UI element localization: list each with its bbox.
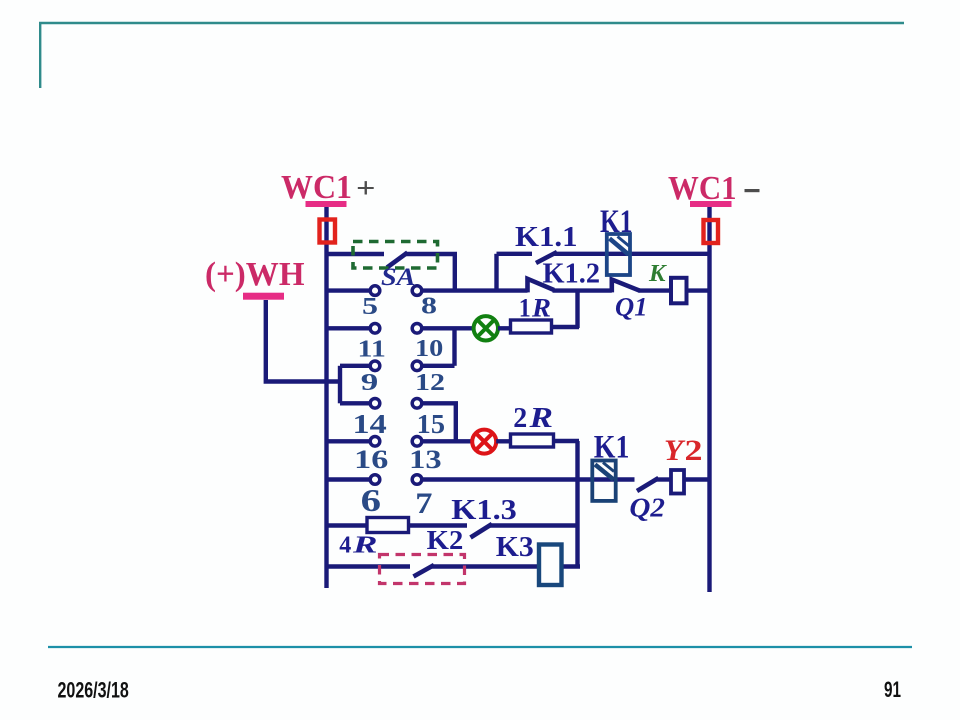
contact terminal 7 bbox=[412, 475, 422, 485]
svg-text:K: K bbox=[648, 261, 668, 287]
relay coil K bbox=[671, 278, 687, 304]
svg-text:+: + bbox=[356, 173, 376, 205]
resistor 1R bbox=[511, 320, 552, 333]
contact terminal 10 bbox=[412, 324, 422, 334]
contact terminal 11 bbox=[370, 324, 380, 334]
svg-text:9: 9 bbox=[361, 370, 379, 396]
contact terminal 14 bbox=[370, 399, 380, 409]
svg-text:K1.2: K1.2 bbox=[543, 259, 601, 290]
wire: row of contacts 5-8 bbox=[327, 288, 371, 292]
selector switch SA dashed enclosure bbox=[353, 242, 438, 269]
svg-text:11: 11 bbox=[358, 337, 386, 363]
wire: riser to K1.1 branch bbox=[494, 254, 498, 291]
resistor 2R bbox=[511, 434, 554, 447]
bottom border line bbox=[48, 646, 912, 648]
contact K1.3 blade bbox=[471, 524, 493, 538]
contact terminal 13 bbox=[412, 437, 422, 447]
wire: SA row right segment down to contact 8 row bbox=[405, 254, 455, 289]
svg-text:K2: K2 bbox=[427, 525, 464, 555]
wire: 1R riser to K1.2/Q1 node bbox=[575, 291, 579, 328]
wire: K1.1 to coil K1 and right bus bbox=[555, 252, 710, 256]
svg-text:5: 5 bbox=[362, 294, 378, 320]
contact terminal 15 bbox=[412, 399, 422, 409]
wire: contact 9 stub from WH bracket bbox=[340, 364, 370, 368]
lamp red (2R branch) bbox=[472, 430, 496, 454]
relay box K1 (bottom, with hatch) bbox=[592, 461, 615, 501]
contact terminal 6 bbox=[370, 475, 380, 485]
wire: WH bracket vertical 9 to 14 bbox=[338, 366, 342, 404]
wire: coil Y2 to right bus bbox=[684, 477, 710, 481]
svg-text:2026/3/18: 2026/3/18 bbox=[58, 677, 129, 702]
resistor 4R bbox=[367, 518, 409, 533]
wire: K2 to K3 box bbox=[432, 564, 540, 568]
svg-text:K1.3: K1.3 bbox=[451, 494, 517, 526]
wire: SA row left segment bbox=[327, 252, 385, 256]
wire: lamp to 2R and 2R to riser bbox=[496, 439, 579, 444]
svg-text:7: 7 bbox=[415, 487, 432, 520]
contact terminal 5 bbox=[370, 286, 380, 296]
wire: row of contacts 11-10 bbox=[327, 326, 371, 330]
contact Q2 blade bbox=[637, 478, 659, 491]
terminal bar WC1- bbox=[690, 201, 732, 207]
wire: K3 box to riser bbox=[561, 564, 580, 568]
contact K2 blade bbox=[414, 565, 435, 577]
wire: Q1 to coil K bbox=[639, 288, 672, 292]
contact terminal 12 bbox=[412, 361, 422, 371]
wire: 1R to riser bbox=[498, 327, 579, 328]
wire: contact 12 stub bbox=[423, 364, 455, 368]
wire: contact 14 stub bbox=[340, 401, 370, 405]
svg-text:13: 13 bbox=[409, 445, 442, 474]
contact Q1 blade with step bbox=[612, 280, 640, 293]
wire: row of contacts 6-7 through K1 box to Q2 bbox=[327, 477, 371, 481]
relay box K1 (top, with hatch) bbox=[607, 234, 630, 275]
switch SA blade bbox=[387, 253, 408, 268]
svg-text:15: 15 bbox=[417, 409, 445, 439]
wire: K1.2 to Q1 bbox=[553, 288, 612, 292]
svg-text:16: 16 bbox=[354, 445, 388, 474]
wire: 4R / K1.3 row bbox=[327, 523, 368, 527]
wire: junction drop 10 to 12 bbox=[452, 328, 456, 366]
wire: left supply bus from WC1+ bbox=[324, 207, 328, 588]
contact terminal 9 bbox=[370, 361, 380, 371]
wire: right supply bus from WC1- bbox=[707, 207, 711, 592]
top border line bbox=[39, 22, 904, 88]
fuse FU1 on WC1+ bbox=[320, 220, 336, 243]
wire: bottom K2/K3 row left bbox=[327, 564, 411, 568]
svg-text:Q2: Q2 bbox=[629, 493, 665, 523]
svg-text:WC1: WC1 bbox=[668, 170, 737, 207]
svg-text:R: R bbox=[351, 533, 377, 559]
contact K1.1 blade bbox=[536, 252, 557, 263]
contact terminal 8 bbox=[412, 286, 422, 296]
svg-text:4: 4 bbox=[339, 533, 351, 559]
relay box K3 bbox=[539, 545, 562, 586]
svg-text:K1.1: K1.1 bbox=[515, 222, 578, 253]
coil Y2 bbox=[671, 470, 684, 494]
svg-text:2: 2 bbox=[685, 434, 703, 467]
lamp green (1R branch) bbox=[474, 316, 498, 340]
wire: K1.3 to riser node bbox=[490, 523, 578, 527]
contact K1.2 blade with step bbox=[528, 279, 555, 293]
relay K2 dashed enclosure bbox=[380, 555, 465, 584]
svg-text:SA: SA bbox=[381, 264, 416, 291]
svg-text:Y: Y bbox=[664, 434, 686, 467]
wire: Q2 to coil Y2 bbox=[656, 477, 672, 481]
svg-text:12: 12 bbox=[415, 370, 445, 396]
wire: row of contacts 16-13 bbox=[327, 439, 371, 443]
svg-text:8: 8 bbox=[421, 294, 437, 320]
svg-text:K1: K1 bbox=[594, 430, 630, 466]
svg-text:1: 1 bbox=[519, 294, 531, 323]
terminal bar (+)WH bbox=[243, 293, 284, 300]
svg-text:2: 2 bbox=[513, 403, 527, 434]
svg-text:R: R bbox=[531, 294, 551, 323]
wire: 2R output drop to bottom row bbox=[575, 441, 579, 567]
svg-text:K1: K1 bbox=[600, 204, 633, 240]
svg-text:K3: K3 bbox=[496, 531, 534, 563]
wire: (+)WH feeder bbox=[266, 300, 340, 382]
fuse FU2 on WC1- bbox=[704, 220, 719, 243]
svg-text:91: 91 bbox=[884, 677, 901, 702]
svg-text:WC1: WC1 bbox=[281, 169, 352, 206]
svg-text:6: 6 bbox=[361, 482, 381, 518]
wire: K1.1 row bbox=[497, 252, 533, 256]
svg-text:10: 10 bbox=[415, 336, 443, 362]
terminal bar WC1+ bbox=[306, 201, 347, 207]
svg-text:(+)WH: (+)WH bbox=[205, 256, 305, 293]
svg-text:R: R bbox=[528, 403, 553, 434]
wire: coil K to right bus bbox=[687, 288, 710, 292]
contact terminal 16 bbox=[370, 437, 380, 447]
svg-text:14: 14 bbox=[353, 409, 387, 439]
wire: contact 15 stub and drop to 13 bbox=[423, 403, 456, 441]
svg-text:Q1: Q1 bbox=[615, 293, 648, 322]
